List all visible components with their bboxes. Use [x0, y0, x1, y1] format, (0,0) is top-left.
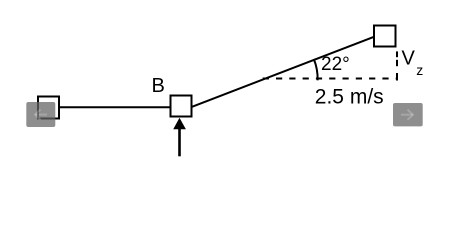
svg-text:z: z	[416, 62, 423, 78]
svg-text:22°: 22°	[321, 54, 350, 75]
svg-text:2.5 m/s: 2.5 m/s	[315, 86, 384, 109]
svg-text:B: B	[152, 75, 165, 97]
svg-text:V: V	[402, 48, 416, 70]
